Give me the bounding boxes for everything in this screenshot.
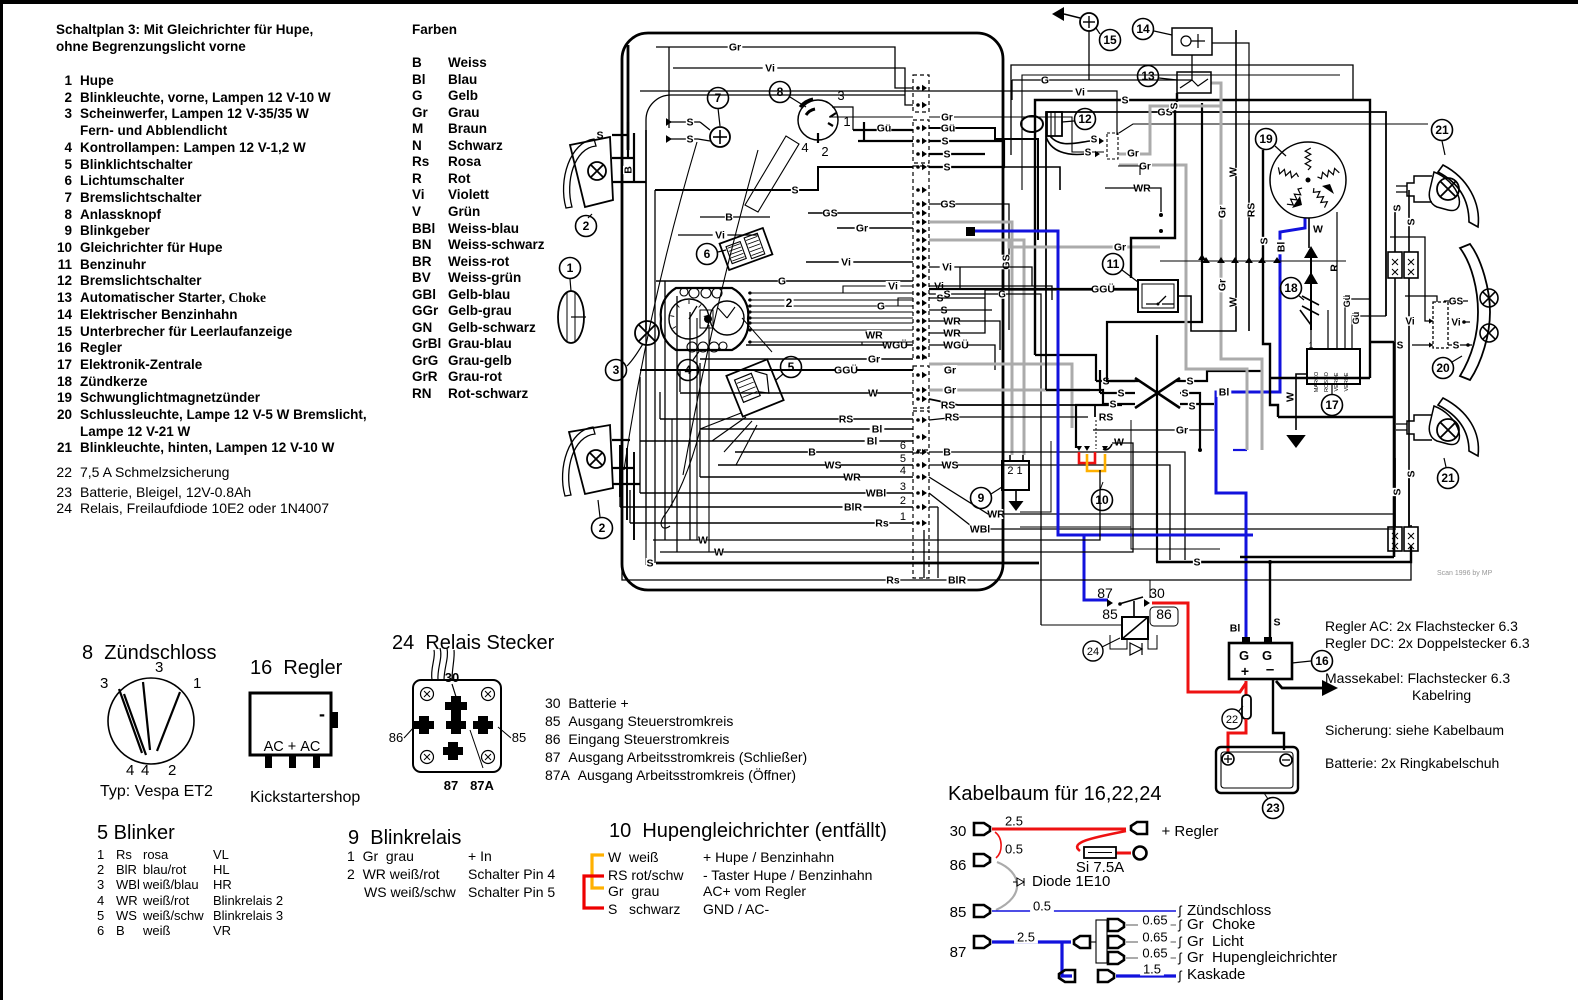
label circle 21 bottom xyxy=(1438,468,1459,489)
svg-text:RS: RS xyxy=(945,412,960,424)
blue label Bl at regulator xyxy=(1228,623,1243,633)
wire WS row 465 right xyxy=(929,465,1170,560)
svg-text:MARCO: MARCO xyxy=(1314,371,1320,392)
svg-text:30: 30 xyxy=(950,823,967,840)
svg-text:S: S xyxy=(1406,470,1418,477)
speedometer wire bundle xyxy=(748,292,913,294)
wire WR hook to choke connector xyxy=(1105,188,1161,212)
relay socket cables on top xyxy=(432,650,435,680)
svg-text:2: 2 xyxy=(583,219,590,233)
svg-text:RS: RS xyxy=(1246,203,1258,218)
svg-text:Vi: Vi xyxy=(888,281,898,293)
hupengleichrichter legend orange bracket xyxy=(592,855,604,888)
section heading 5 Blinker xyxy=(97,822,175,844)
wire B row 452 right xyxy=(929,452,1185,560)
svg-text:2 1: 2 1 xyxy=(1007,465,1022,477)
wire WR row 333 xyxy=(929,290,1138,333)
headlamp 3 lamp xyxy=(635,321,659,345)
svg-text:10: 10 xyxy=(1095,493,1109,507)
rear light 20 connector dashed xyxy=(1433,302,1448,348)
label circle 21 top xyxy=(1432,120,1453,141)
svg-text:23: 23 xyxy=(1266,801,1280,815)
svg-text:19: 19 xyxy=(1259,132,1273,146)
svg-text:BlR: BlR xyxy=(844,502,863,514)
label circle 3 xyxy=(606,360,627,381)
svg-text:S: S xyxy=(791,185,798,197)
svg-text:WR: WR xyxy=(943,316,961,328)
svg-text:Rs: Rs xyxy=(886,575,900,587)
svg-text:Vi: Vi xyxy=(1405,316,1414,327)
ignition switch 8 circle xyxy=(108,678,194,764)
kabelbaum diode symbol xyxy=(1013,878,1024,886)
regulator 16 legs xyxy=(265,755,272,768)
svg-text:6: 6 xyxy=(900,440,906,452)
label circle 17 xyxy=(1322,395,1343,416)
wire frame outer left section xyxy=(622,33,1003,590)
label circle 4 xyxy=(678,360,699,381)
relay socket pin center xyxy=(446,716,466,734)
svg-text:ʃ: ʃ xyxy=(1178,934,1183,949)
svg-text:Bl: Bl xyxy=(872,424,883,436)
flywheel magneto 19 rotor xyxy=(1270,142,1346,218)
svg-text:12: 12 xyxy=(1078,112,1092,126)
svg-text:WBl: WBl xyxy=(970,524,990,536)
wire frame inner left section xyxy=(646,95,905,540)
wire BlR elbow down xyxy=(937,507,939,578)
svg-text:WR: WR xyxy=(1133,183,1151,195)
svg-text:RS: RS xyxy=(1099,412,1114,424)
svg-text:ʃ: ʃ xyxy=(1178,917,1183,932)
svg-text:WR: WR xyxy=(843,472,861,484)
wire S row 154 xyxy=(929,153,985,155)
kabelbaum gray arc 86-85 xyxy=(996,862,1017,910)
rear blinker 21 top housing xyxy=(1438,165,1478,227)
svg-text:86: 86 xyxy=(389,730,403,745)
label circle 5 xyxy=(781,357,802,378)
wires to rear blinker bottom xyxy=(1395,458,1411,527)
wire S row 141 to bracket xyxy=(929,141,1004,167)
brake switch 7 wires xyxy=(668,122,700,139)
wire GGue to fuel gauge xyxy=(929,288,1138,290)
horn rectifier 10 orange element xyxy=(1087,454,1105,471)
light switch 6 body xyxy=(720,228,773,270)
label circle 24 xyxy=(1083,641,1103,661)
kabelbaum blue wire 0.5 Zuendschloss xyxy=(992,910,1176,912)
svg-text:87: 87 xyxy=(950,944,967,961)
svg-text:0.65: 0.65 xyxy=(1142,945,1167,960)
svg-text:85: 85 xyxy=(512,730,526,745)
vertical wire RS center xyxy=(1248,120,1250,261)
svg-text:Vi: Vi xyxy=(765,63,775,75)
svg-text:S: S xyxy=(1273,617,1280,629)
kabelbaum red arc 30-86 xyxy=(995,832,1001,858)
svg-text:GS: GS xyxy=(940,199,955,211)
wire S into regulator xyxy=(1269,562,1271,637)
vertical wire S center xyxy=(1263,150,1278,417)
svg-text:S: S xyxy=(1121,95,1128,107)
wire enclosure thin lines around 10 xyxy=(1020,420,1220,549)
gray wire near 12 xyxy=(1119,106,1221,154)
wire S left row 141 xyxy=(858,140,913,142)
wire G from 15 down xyxy=(1088,31,1090,80)
svg-text:W: W xyxy=(1313,224,1323,236)
label circle 14 xyxy=(1133,19,1154,40)
svg-text:0.65: 0.65 xyxy=(1142,912,1167,927)
svg-text:87: 87 xyxy=(444,778,458,793)
svg-text:S: S xyxy=(941,136,948,148)
svg-text:Gü: Gü xyxy=(877,123,892,135)
svg-text:Vi: Vi xyxy=(715,230,725,242)
kabelbaum red branch to fuse xyxy=(1077,831,1126,851)
label circle 19 xyxy=(1256,129,1277,150)
label circle 1 xyxy=(560,258,581,279)
svg-text:Gr: Gr xyxy=(1217,279,1229,291)
svg-text:85: 85 xyxy=(1102,606,1118,622)
svg-text:–: – xyxy=(1266,661,1274,678)
svg-text:S: S xyxy=(1117,388,1124,400)
rear light 20 housing xyxy=(1460,244,1490,380)
svg-text:S: S xyxy=(1091,134,1098,145)
svg-text:WR: WR xyxy=(987,509,1005,521)
wire Gr elbow 430 xyxy=(1093,429,1214,431)
label circle 11 xyxy=(1103,254,1124,275)
svg-text:2: 2 xyxy=(900,495,906,507)
svg-text:Gü: Gü xyxy=(1351,312,1361,325)
svg-text:87: 87 xyxy=(1097,585,1113,601)
svg-text:S: S xyxy=(1392,204,1404,211)
wire WR row 321 xyxy=(929,321,1000,350)
svg-text:GGÜ: GGÜ xyxy=(1091,283,1115,296)
section heading 8 Zuendschloss xyxy=(82,642,217,664)
wire Gr row 390 gray xyxy=(929,389,1090,392)
battery terminals xyxy=(1222,753,1234,765)
svg-text:2: 2 xyxy=(786,296,793,310)
starter button 8 contacts xyxy=(828,113,836,126)
scan border top xyxy=(0,0,1578,4)
speedometer bottom lamps xyxy=(687,342,697,352)
relay socket pin 87 xyxy=(443,742,463,760)
section heading 24 Relais Stecker xyxy=(392,632,554,654)
junction X of S wires xyxy=(1135,378,1180,408)
kabelbaum fuse Si 7.5A xyxy=(1116,852,1131,855)
svg-text:13: 13 xyxy=(1141,69,1155,83)
wire Gue right both sides xyxy=(929,128,1038,240)
rear blinker 21 bottom lamp xyxy=(1437,419,1459,441)
horn rectifier 10 lead RS xyxy=(1076,405,1122,448)
svg-text:11: 11 xyxy=(1107,257,1120,271)
brake switch 12 wires to pins xyxy=(1046,136,1090,154)
svg-text:Bl: Bl xyxy=(1230,623,1241,635)
svg-text:18: 18 xyxy=(1284,281,1298,295)
ladder wires from left components to connector column xyxy=(808,212,913,214)
svg-text:ʃ: ʃ xyxy=(1178,968,1183,983)
wire WR diagonal to rear xyxy=(929,477,1394,514)
svg-text:S: S xyxy=(1109,399,1116,411)
svg-text:16: 16 xyxy=(1315,654,1329,668)
svg-text:S: S xyxy=(686,117,693,129)
svg-text:15: 15 xyxy=(1103,33,1117,47)
svg-text:S: S xyxy=(1397,340,1404,351)
svg-text:Gr: Gr xyxy=(1127,148,1139,159)
regulator 16 legend box xyxy=(250,693,331,755)
svg-text:Gr: Gr xyxy=(944,365,956,377)
wires continue below 261 xyxy=(1178,261,1249,331)
bottom frame wire Rs BlR xyxy=(622,560,1411,580)
svg-text:G: G xyxy=(1239,648,1249,663)
svg-text:9: 9 xyxy=(978,491,985,505)
svg-text:86: 86 xyxy=(950,857,967,874)
svg-text:S: S xyxy=(943,149,950,161)
blue tick near connector xyxy=(1233,449,1247,451)
svg-text:GS: GS xyxy=(1449,296,1464,307)
svg-text:3: 3 xyxy=(900,481,906,493)
svg-text:4: 4 xyxy=(801,140,808,155)
wire Vi row 92 xyxy=(640,91,1117,135)
thin line from 12 bracket to rear xyxy=(1119,124,1428,133)
svg-text:AC + AC: AC + AC xyxy=(264,739,321,755)
svg-text:7: 7 xyxy=(715,91,722,105)
label circle 7 xyxy=(708,88,729,109)
relay 24 freewheel diode loop xyxy=(1110,635,1157,649)
svg-text:Gr: Gr xyxy=(729,42,741,54)
wire WBl diagonal to rear xyxy=(929,493,1396,529)
right section frame outline xyxy=(1011,65,1353,155)
kabelbaum red wire 2.5 to regler xyxy=(992,828,1126,831)
flywheel coils xyxy=(1305,148,1311,170)
svg-text:Gü: Gü xyxy=(1342,295,1352,308)
svg-text:GS: GS xyxy=(822,208,837,220)
wire S row 294 xyxy=(929,294,1041,625)
gray wire from choke 13 down xyxy=(1211,83,1262,450)
wire S thick return path xyxy=(1240,342,1394,557)
svg-text:0.65: 0.65 xyxy=(1142,929,1167,944)
svg-text:RS: RS xyxy=(839,414,854,426)
right side annotations xyxy=(1325,619,1518,634)
svg-text:W: W xyxy=(714,547,724,559)
svg-text:S: S xyxy=(646,558,653,570)
svg-text:4: 4 xyxy=(900,465,906,477)
wire from fuel tap to engine xyxy=(1212,43,1249,120)
wire Vi top xyxy=(673,68,913,105)
svg-text:-: - xyxy=(319,704,325,724)
svg-text:WR: WR xyxy=(943,328,961,340)
section heading Kabelbaum xyxy=(948,783,1162,805)
wire GS main top right xyxy=(1046,112,1386,390)
starter button 8 terminal lines xyxy=(832,107,853,130)
relay socket pin 87A leader xyxy=(470,730,483,768)
label circle 22 xyxy=(1222,709,1242,729)
svg-text:2: 2 xyxy=(821,144,828,159)
wire S long row 190 staircase xyxy=(655,167,913,190)
Kickstartershop caption xyxy=(250,789,360,807)
svg-text:ʃ: ʃ xyxy=(1178,950,1183,965)
svg-text:Bl: Bl xyxy=(867,436,878,448)
rear blinker 21 top lamp xyxy=(1437,178,1459,200)
wire R from flywheel xyxy=(1329,264,1341,272)
svg-text:S: S xyxy=(943,162,950,174)
svg-text:Vi: Vi xyxy=(1451,317,1460,328)
speedometer center dot xyxy=(704,315,712,323)
svg-text:S: S xyxy=(1453,340,1460,351)
blue wire from column to regulator xyxy=(966,227,975,236)
svg-text:14: 14 xyxy=(1136,22,1150,36)
wire Vi S S right labels xyxy=(932,281,947,291)
wire W bottom 540 xyxy=(653,470,1100,540)
red wire from relay 30 to regulator plus xyxy=(1152,603,1246,692)
label circle 12 xyxy=(1075,109,1096,130)
label circle 9 xyxy=(971,488,992,509)
vertical wire W center xyxy=(1235,30,1237,261)
svg-text:S: S xyxy=(1085,147,1092,158)
label circle 2 bottom xyxy=(592,518,613,539)
svg-text:21: 21 xyxy=(1441,471,1455,485)
rear connector bottom pair xyxy=(1388,527,1402,551)
label circle 23 xyxy=(1263,798,1284,819)
svg-text:VERDE: VERDE xyxy=(1334,372,1340,391)
brake switch 12 dashed box xyxy=(1107,133,1118,159)
svg-text:W: W xyxy=(1228,297,1240,307)
svg-text:G: G xyxy=(778,276,786,288)
electronics 17 box xyxy=(1307,349,1360,384)
regulator 16 box xyxy=(1229,643,1292,679)
svg-text:Gü: Gü xyxy=(941,123,956,135)
svg-text:8: 8 xyxy=(777,85,784,99)
svg-text:WBl: WBl xyxy=(866,488,886,500)
svg-text:20: 20 xyxy=(1436,361,1450,375)
front blinker 2 bottom lamp xyxy=(587,450,605,468)
svg-text:1.5: 1.5 xyxy=(1143,961,1161,976)
kabelbaum blue wire 2.5 branch xyxy=(992,940,1071,943)
svg-text:W: W xyxy=(1228,167,1240,177)
hupengleichrichter legend red bracket xyxy=(584,876,604,908)
fuse 22 xyxy=(1245,681,1248,695)
label circle 18 xyxy=(1281,278,1302,299)
label circle 16 xyxy=(1312,651,1333,672)
svg-text:WGÜ: WGÜ xyxy=(943,339,969,352)
wire WGue row 345 xyxy=(929,345,995,370)
svg-text:3: 3 xyxy=(613,363,620,377)
svg-text:VERDE: VERDE xyxy=(1344,372,1350,391)
svg-text:GGÜ: GGÜ xyxy=(834,364,858,377)
front blinker 2 bottom housing xyxy=(569,425,613,494)
svg-text:1: 1 xyxy=(843,114,850,129)
svg-text:W: W xyxy=(1285,392,1297,402)
scooter body curve left xyxy=(624,142,697,470)
svg-text:6: 6 xyxy=(704,247,711,261)
relay socket pin 86 xyxy=(414,716,434,734)
wire S bottom long xyxy=(656,562,1039,565)
title block xyxy=(56,23,313,38)
relay 24 coil box xyxy=(1122,617,1148,639)
svg-text:30: 30 xyxy=(1149,585,1165,601)
blue wire from flywheel xyxy=(1216,218,1305,641)
idle breaker 15 arrow and contact xyxy=(1052,7,1064,21)
left half wrap vertical wires xyxy=(654,190,656,563)
svg-text:2.5: 2.5 xyxy=(1017,929,1035,944)
label circle 20 xyxy=(1433,358,1454,379)
wire W from flywheel down xyxy=(1308,218,1310,248)
wire Gr labels near 12 xyxy=(1126,148,1140,158)
svg-text:86: 86 xyxy=(1156,606,1172,622)
steering column shape xyxy=(745,136,799,212)
electronics 17 top pins xyxy=(1311,212,1386,349)
rear light 20 wires and labels xyxy=(1390,237,1472,345)
label circle 10 xyxy=(1092,490,1113,511)
brake switch 7 plus lamp xyxy=(710,127,730,147)
gray wire row 240 to blinkgeber pin xyxy=(929,240,1024,455)
svg-text:2.5: 2.5 xyxy=(1005,813,1023,828)
speedometer top lamps xyxy=(689,288,699,298)
svg-text:1: 1 xyxy=(900,511,906,523)
legend list 1-24 xyxy=(44,74,72,89)
wire Gr top xyxy=(656,47,913,88)
wire Gue left from ignition xyxy=(853,129,913,131)
svg-text:S: S xyxy=(1406,218,1418,225)
svg-text:Gr: Gr xyxy=(1217,206,1229,218)
svg-text:R: R xyxy=(1329,264,1341,272)
horn rectifier 10 red element xyxy=(1079,452,1095,463)
svg-text:5: 5 xyxy=(788,360,795,374)
svg-text:1: 1 xyxy=(567,261,574,275)
rear blinker 21 bottom housing xyxy=(1438,398,1478,456)
relay socket pin 30 xyxy=(445,696,467,716)
horn 1 body xyxy=(558,291,584,343)
speedometer left gauge xyxy=(669,299,709,339)
svg-text:G: G xyxy=(877,301,885,313)
svg-text:ʃ: ʃ xyxy=(1178,903,1183,918)
wire Rs row 523 elbow down xyxy=(923,530,925,578)
blinkgeber 9 ground arrow xyxy=(1009,501,1024,511)
svg-text:Vi: Vi xyxy=(841,257,851,269)
svg-text:0.5: 0.5 xyxy=(1005,841,1023,856)
svg-text:B: B xyxy=(725,212,733,224)
svg-text:S: S xyxy=(686,134,693,146)
speedometer 4 outer body xyxy=(661,288,749,350)
wire S row 167 xyxy=(929,167,1060,190)
blinkgeber 9 box xyxy=(1002,461,1029,490)
relay pin legend list xyxy=(545,696,629,711)
flywheel arrows xyxy=(1292,196,1302,208)
gray wire Gr label vertical xyxy=(1217,205,1229,220)
svg-text:B: B xyxy=(623,166,635,174)
wire S thick from choke to X junction xyxy=(1107,103,1202,381)
svg-text:B: B xyxy=(808,447,816,459)
horn rectifier 10 lead W xyxy=(1103,444,1112,450)
kabelbaum gray stubs 0.65 xyxy=(1126,924,1176,926)
svg-text:B: B xyxy=(943,447,951,459)
choke 13 box xyxy=(1177,72,1211,93)
relay 24 thin wiring box xyxy=(1041,624,1121,626)
svg-text:S: S xyxy=(1186,376,1193,388)
svg-text:Gr: Gr xyxy=(1176,425,1188,437)
battery 23 body xyxy=(1216,747,1298,793)
wire G label row 80 xyxy=(1012,80,1082,100)
Farben color legend xyxy=(412,23,457,38)
svg-text:2: 2 xyxy=(599,521,606,535)
wire S main top right xyxy=(1035,100,1370,378)
svg-text:Si 7.5A: Si 7.5A xyxy=(1076,859,1124,876)
ignition switch 8 contact lines xyxy=(119,689,142,753)
wire W bottom 552 xyxy=(660,443,1133,552)
wire Vi row 267 xyxy=(929,267,1032,286)
relay socket 24 drawing body xyxy=(413,680,501,772)
regulator 16 top pins xyxy=(1242,637,1250,643)
front blinker bottom wires xyxy=(620,445,634,540)
svg-text:BlR: BlR xyxy=(948,575,967,587)
kabelbaum bracket to three terminals xyxy=(1096,920,1107,963)
rear blinker 21 bottom bracket xyxy=(1407,415,1432,440)
svg-text:S: S xyxy=(1169,102,1181,109)
